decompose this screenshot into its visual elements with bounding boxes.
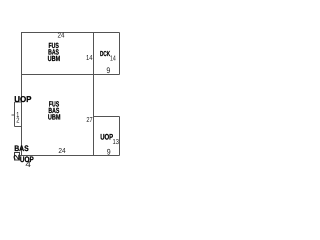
svg-text:13: 13 <box>113 137 120 146</box>
svg-text:24: 24 <box>58 31 65 40</box>
svg-text:14: 14 <box>110 53 116 62</box>
svg-text:2: 2 <box>12 155 21 160</box>
wire UOP porch top <box>94 116 120 118</box>
wire right wall lower <box>119 117 121 156</box>
wire top outline <box>21 32 120 34</box>
svg-text:9: 9 <box>106 66 110 75</box>
svg-text:14: 14 <box>86 53 93 62</box>
wire middle horizontal <box>21 74 120 76</box>
svg-text:4: 4 <box>25 159 31 169</box>
left UOP porch box <box>15 102 22 127</box>
svg-text:24: 24 <box>58 146 65 155</box>
wire bottom outline <box>20 155 120 157</box>
wire right wall upper <box>119 33 121 75</box>
left porch tick <box>12 114 15 116</box>
bottom-left tiny porch box <box>15 153 20 161</box>
svg-text:2: 2 <box>16 115 19 124</box>
svg-text:UBM: UBM <box>48 113 61 122</box>
svg-text:UBM: UBM <box>48 54 61 63</box>
wire center wall <box>93 33 95 156</box>
svg-text:UOP: UOP <box>14 94 32 104</box>
svg-text:9: 9 <box>107 148 111 157</box>
wire left wall <box>21 33 23 156</box>
svg-text:BAS: BAS <box>14 144 29 153</box>
svg-text:27: 27 <box>86 115 92 124</box>
